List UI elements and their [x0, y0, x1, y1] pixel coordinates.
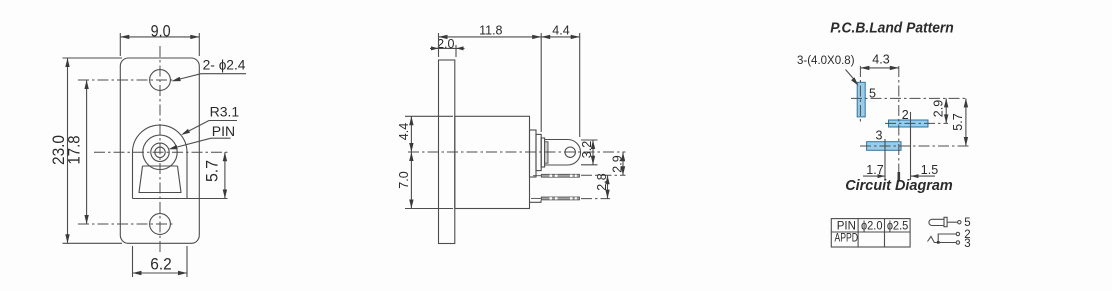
svg-text:2.8: 2.8: [595, 173, 609, 190]
svg-text:P.C.B.Land Pattern: P.C.B.Land Pattern: [830, 21, 954, 37]
svg-text:17.8: 17.8: [66, 136, 84, 165]
svg-text:R3.1: R3.1: [210, 104, 240, 120]
svg-text:1.7: 1.7: [866, 163, 883, 177]
svg-text:2.9: 2.9: [931, 100, 945, 117]
svg-text:ɸ2.5: ɸ2.5: [887, 220, 909, 232]
svg-text:5.7: 5.7: [951, 113, 965, 130]
svg-text:APPD: APPD: [835, 232, 859, 244]
svg-text:7.0: 7.0: [397, 171, 411, 188]
svg-text:2.9: 2.9: [611, 155, 625, 172]
svg-text:3: 3: [964, 238, 970, 250]
svg-text:4.3: 4.3: [872, 52, 889, 66]
svg-text:3-(4.0X0.8): 3-(4.0X0.8): [797, 55, 855, 67]
svg-text:5: 5: [964, 217, 970, 229]
svg-text:3: 3: [876, 129, 883, 143]
svg-text:2.0: 2.0: [437, 37, 454, 51]
svg-text:4.4: 4.4: [397, 123, 411, 140]
svg-text:ɸ2.0: ɸ2.0: [861, 220, 883, 232]
svg-text:5.7: 5.7: [204, 160, 222, 182]
svg-text:1.5: 1.5: [921, 163, 938, 177]
svg-text:9.0: 9.0: [151, 22, 171, 40]
svg-text:PIN: PIN: [837, 220, 856, 232]
svg-text:PIN: PIN: [212, 123, 235, 139]
svg-text:3.2: 3.2: [580, 141, 594, 158]
svg-text:2: 2: [902, 108, 909, 122]
svg-text:6.2: 6.2: [150, 255, 172, 273]
svg-text:2- ɸ2.4: 2- ɸ2.4: [203, 58, 246, 73]
svg-text:5: 5: [869, 87, 876, 101]
svg-text:Circuit Diagram: Circuit Diagram: [845, 178, 953, 194]
svg-text:4.4: 4.4: [552, 23, 569, 37]
svg-text:11.8: 11.8: [479, 23, 502, 37]
